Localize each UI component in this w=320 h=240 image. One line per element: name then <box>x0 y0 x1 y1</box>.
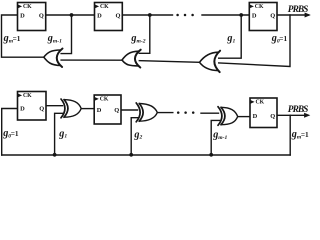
node junction before FF T3 <box>239 13 243 17</box>
node bus junction 3 <box>209 153 213 157</box>
wire top-left feedback: gate T1 output to FF T1 D input <box>2 15 44 57</box>
wire FF T3 Q to PRBS output arrow <box>277 14 309 16</box>
node junction after FF T2 <box>148 13 152 17</box>
svg-text:CK: CK <box>100 4 109 10</box>
ellipsis dots bottom row <box>177 111 180 114</box>
wire FF T2 Q to dots <box>122 14 173 16</box>
node bus junction 2 <box>129 153 133 157</box>
wire tap junction1 down to gate T1 top input <box>60 15 72 54</box>
wire feedback from PRBS node down and left to gate T3 bottom input <box>217 15 290 67</box>
svg-text:D: D <box>253 113 258 120</box>
gate U6 (XOR, bottom row right) <box>221 107 238 124</box>
wire gate B1 output to FF B2 D <box>81 108 95 110</box>
svg-text:D: D <box>20 12 25 19</box>
wire gate T3 output to gate T2 bottom input <box>138 61 200 63</box>
wire FF B2 Q to gate B2 top input <box>121 109 138 111</box>
svg-text:Q: Q <box>270 113 275 120</box>
svg-text:CK: CK <box>255 4 264 10</box>
wire tap junction3 down to gate T3 top input <box>217 15 242 58</box>
wire gate B3 output to FF B3 D <box>238 116 251 118</box>
wire bottom-left: bus up to FF B1 D input <box>2 109 18 156</box>
gate U1 (XOR drawn as OR, top row left) <box>44 50 61 66</box>
arrowhead PRBS bottom <box>304 113 310 118</box>
svg-text:CK: CK <box>23 4 32 10</box>
svg-text:g0=1: g0=1 <box>271 33 288 44</box>
svg-text:PRBS: PRBS <box>288 105 309 115</box>
wire gate B2 output to dots <box>157 112 173 114</box>
wire riser bus to gate B2 bottom input <box>131 118 138 155</box>
ellipsis dots top row <box>176 14 179 17</box>
gate U3 (XOR drawn as OR, top row right) <box>200 52 219 70</box>
svg-text:Q: Q <box>114 107 119 114</box>
svg-text:CK: CK <box>100 97 109 103</box>
wire feedback vertical from bottom PRBS node to bus <box>289 115 291 155</box>
wire riser bus to gate B1 bottom input <box>55 113 63 155</box>
flip-flop FF T2 (top row, stage m-1) <box>95 3 123 31</box>
wire dots to gate B3 top input <box>201 112 219 114</box>
svg-text:D: D <box>252 12 257 19</box>
wire FF B3 Q to PRBS output arrow (bottom) <box>276 114 308 116</box>
wire dots to FF T3 D <box>202 14 250 16</box>
wire FF B1 Q to gate B1 top input <box>46 105 63 107</box>
svg-text:D: D <box>20 106 25 113</box>
wire feedback bus (bottom) <box>2 154 291 156</box>
svg-text:Q: Q <box>116 12 121 19</box>
svg-text:D: D <box>97 107 102 114</box>
svg-text:CK: CK <box>23 93 32 99</box>
flip-flop FF T3 (top row, stage 1) <box>249 3 277 31</box>
gate U2 (XOR drawn as OR, top row middle) <box>122 51 139 66</box>
flip-flop FF B3 (bottom row, stage m) <box>250 98 277 128</box>
svg-text:g0=1: g0=1 <box>2 128 19 139</box>
gate U5 (XOR, bottom row middle) <box>139 104 157 122</box>
svg-text:PRBS: PRBS <box>288 5 309 15</box>
svg-text:Q: Q <box>39 12 44 19</box>
node bus junction 1 <box>53 153 57 157</box>
arrowhead PRBS top <box>305 13 311 18</box>
svg-text:Q: Q <box>39 106 44 113</box>
svg-text:CK: CK <box>256 100 265 106</box>
svg-text:D: D <box>97 12 102 19</box>
svg-text:gm=1: gm=1 <box>3 33 21 44</box>
flip-flop FF T1 (top row, stage m) <box>18 3 46 31</box>
flip-flop FF B2 (bottom row, stage 1) <box>94 95 121 124</box>
node junction after FF T1 <box>70 13 74 17</box>
wire FF T1 Q to FF T2 D <box>46 14 96 16</box>
flip-flop FF B1 (bottom row, stage 0) <box>18 92 47 121</box>
wire tap junction2 down to gate T2 top input <box>138 15 150 53</box>
wire gate T2 output to gate T1 bottom input <box>59 59 123 61</box>
svg-text:gm=1: gm=1 <box>291 129 309 140</box>
gate U4 (XOR, bottom row left) <box>64 100 81 118</box>
wire riser bus to gate B3 bottom input <box>211 120 219 155</box>
svg-text:Q: Q <box>270 12 275 19</box>
